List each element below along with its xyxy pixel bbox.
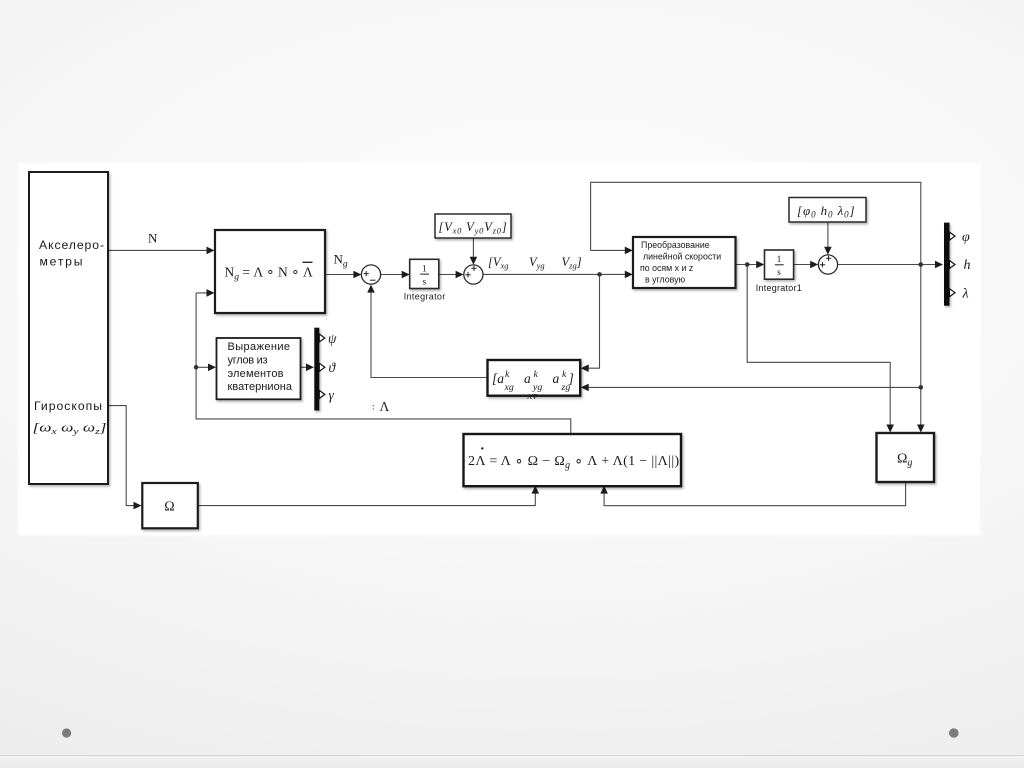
svg-text:Преобразование: Преобразование [641, 240, 710, 250]
junction dot on transform output [745, 262, 750, 267]
sum S2 plus left [465, 272, 470, 277]
svg-text:λ: λ [962, 287, 969, 302]
junction dot on Vg wire [597, 272, 602, 277]
arrowhead into mux psi-theta-gamma [306, 364, 314, 372]
wire quaternion-angles block to mux psi-theta-gamma [301, 366, 308, 368]
svg-text:s: s [422, 277, 426, 287]
svg-text:φ: φ [962, 230, 970, 245]
svg-text:a: a [553, 371, 560, 386]
wire Ng block out to sum S1 [325, 274, 355, 276]
constant box Vx0 Vy0 Vz0 [435, 214, 511, 238]
arrowhead into Integrator1 [756, 261, 764, 269]
svg-text:по осям x и z: по осям x и z [640, 263, 693, 273]
svg-text:Integrator1: Integrator1 [756, 283, 802, 293]
arrowhead into equation box bottom input 1 [532, 486, 540, 494]
overbar of conjugate Lambda [303, 261, 313, 263]
arrowhead into sum S1 left [353, 271, 361, 279]
svg-text:s: s [777, 268, 781, 278]
svg-text:1: 1 [422, 264, 427, 274]
svg-text:]: ] [568, 371, 574, 386]
junction dot on h vertical at a_k branch [919, 385, 924, 390]
white canvas [18, 163, 981, 536]
arrowhead into transform block input 2 [625, 271, 633, 279]
svg-text:1: 1 [777, 255, 782, 265]
wire sum S2 to transform block input 2 [483, 273, 627, 275]
svg-text:Integrator: Integrator [404, 292, 446, 302]
sum S1 minus sign [370, 279, 376, 281]
mux port phi [950, 232, 956, 240]
block sensors (Акселерометры / Гироскопы) [29, 172, 108, 484]
svg-text:линейной скорости: линейной скорости [643, 252, 721, 262]
mux bar psi-theta-gamma [314, 328, 319, 411]
block Integrator1 [765, 250, 794, 279]
svg-text:[a: [a [492, 371, 504, 386]
dot over Lambda in equation [481, 447, 483, 449]
mux port theta [319, 363, 325, 371]
block Omega [142, 483, 198, 528]
junction dot on h wire [919, 262, 924, 267]
wire Vx0 constant drop into sum S2 [472, 239, 474, 259]
sum S1 plus sign [364, 271, 369, 276]
block Omega_g [877, 433, 935, 482]
sum S1 circle [361, 265, 380, 284]
arrowhead into equation box bottom input 2 [600, 486, 608, 494]
svg-text:ψ: ψ [328, 331, 337, 346]
wire Integrator1 to sum S3 [794, 264, 812, 266]
arrowhead into Ng input 1 [207, 247, 215, 255]
arrowhead into sum S1 bottom [367, 285, 375, 293]
wire Lambda feedback from equation box top to Ng input 2 [196, 293, 571, 434]
wire h branch to a_k box input 2 [588, 386, 921, 388]
wire Omega_g out to equation box bottom input 2 [604, 482, 906, 506]
wire branch to quaternion-angles block input [196, 366, 209, 368]
svg-text:метры: метры [40, 255, 83, 269]
svg-text:2Λ = Λ ∘ Ω − Ωg ∘ Λ + Λ(1 − ||: 2Λ = Λ ∘ Ω − Ωg ∘ Λ + Λ(1 − ||Λ||) [468, 454, 680, 471]
wire a_k box out to sum S1 bottom [371, 292, 487, 378]
svg-text:Ω: Ω [164, 500, 174, 515]
arrowhead into a_k box input 2 (pointing left) [581, 384, 589, 392]
wire sum S3 to mux phi-h-lambda [838, 264, 937, 266]
wire transform block out to Integrator1 [736, 264, 758, 266]
svg-text:h: h [964, 258, 971, 273]
arrowhead into a_k box input 1 (pointing left) [581, 364, 589, 372]
svg-text:элементов: элементов [228, 368, 284, 380]
svg-text:Λ: Λ [380, 399, 390, 414]
sum S2 plus top [471, 266, 476, 271]
arrowhead into sum S2 left [456, 271, 464, 279]
svg-text:кватерниона: кватерниона [228, 381, 293, 393]
arrowhead into transform block input 1 [625, 247, 633, 255]
svg-text:a: a [524, 371, 531, 386]
arrowhead into sum S3 left [810, 261, 818, 269]
nav dot left [62, 728, 71, 737]
arrowhead into Omega_g top input 2 [917, 425, 925, 433]
box quaternion equation [464, 434, 682, 486]
svg-text:Гироскопы: Гироскопы [34, 399, 102, 413]
block quaternion angles (Выражение...) [217, 338, 301, 399]
sum S3 plus top [826, 256, 831, 261]
svg-text:k: k [562, 369, 567, 380]
arrowhead into Omega block [134, 502, 142, 510]
block transform (Преобразование...) [633, 237, 736, 288]
wire top feedback loop from h line to transform block input 1 [591, 182, 921, 426]
svg-text:Выражение: Выражение [228, 341, 291, 353]
svg-text:в угловую: в угловую [645, 275, 686, 285]
mux port gamma [319, 390, 325, 398]
svg-text:углов из: углов из [228, 355, 268, 367]
block Ng = L o N o L [215, 230, 325, 313]
box a_k vector [488, 360, 581, 396]
wire gyroscopes to Omega block [109, 406, 136, 506]
wire phi0 constant drop into sum S3 [827, 222, 829, 248]
wire Integrator to sum S2 [439, 274, 458, 276]
wire sum S1 to Integrator [381, 274, 404, 276]
svg-text:γ: γ [329, 388, 335, 403]
mux port lambda [950, 289, 956, 297]
constant box phi0 h0 lambda0 [789, 198, 866, 223]
mux bar phi-h-lambda [944, 223, 950, 306]
wire N from accelerometers to Ng block [109, 249, 209, 251]
arrowhead into Omega_g top input 1 [886, 425, 894, 433]
wire branch Vg down to a_k box input 1 [588, 274, 600, 368]
svg-text:xg: xg [504, 382, 514, 393]
svg-text:ΛΨ: ΛΨ [527, 393, 538, 401]
arrowhead into sum S2 top [470, 257, 478, 265]
junction dot on Lambda feedback [194, 365, 199, 370]
svg-text:Акселеро-: Акселеро- [39, 238, 104, 252]
wire transform out branch down to Omega_g input 1 [747, 265, 890, 427]
block Integrator [410, 259, 439, 288]
arrowhead into quaternion-angles block [208, 364, 216, 372]
sum S3 circle [818, 255, 837, 274]
nav dot right [949, 728, 959, 738]
svg-text:N: N [148, 231, 158, 246]
svg-text:yg: yg [532, 382, 542, 393]
arrowhead into Ng input 2 [207, 289, 215, 297]
arrowhead into mux phi-h-lambda [935, 261, 943, 269]
arrowhead into Integrator [402, 271, 410, 279]
wire Omega out to equation box bottom input 1 [198, 493, 535, 506]
sum S2 circle [464, 265, 483, 284]
mux port psi [319, 334, 325, 342]
mux port h [950, 261, 956, 269]
sum S3 plus left [820, 262, 825, 267]
svg-text::: : [372, 402, 375, 412]
svg-text:k: k [505, 369, 510, 380]
svg-text:k: k [534, 369, 539, 380]
arrowhead into sum S3 top [824, 247, 832, 255]
